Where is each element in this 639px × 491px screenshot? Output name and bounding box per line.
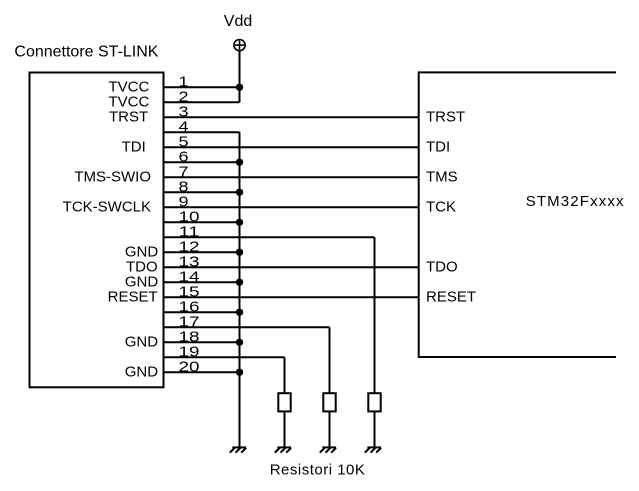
svg-text:TRST: TRST [426, 109, 465, 126]
ground symbol 1 [230, 447, 246, 452]
svg-text:TDI: TDI [426, 139, 450, 156]
junction dot Vdd / pin 1 [236, 84, 243, 91]
svg-text:Vdd: Vdd [224, 13, 252, 30]
wire pin 7 stub [164, 176, 419, 178]
ground symbol 4 [365, 447, 381, 452]
wire pin 1 stub [164, 86, 240, 88]
power symbol Vdd [234, 40, 245, 51]
svg-text:TCK: TCK [426, 199, 456, 216]
wire pin 16 stub [164, 311, 240, 313]
svg-text:TRST: TRST [109, 109, 148, 126]
ground symbol 2 [275, 447, 291, 452]
wire pin 10 stub [164, 221, 240, 223]
wire pin 18 stub [164, 341, 240, 343]
svg-text:TMS-SWIO: TMS-SWIO [74, 169, 151, 186]
wire pin 4 stub [164, 131, 240, 133]
svg-text:TDO: TDO [426, 259, 458, 276]
wire Vdd stem down to pins 1-2 [239, 51, 241, 103]
svg-text:STM32Fxxxx: STM32Fxxxx [526, 193, 625, 210]
svg-text:Connettore ST-LINK: Connettore ST-LINK [14, 43, 158, 60]
resistor R2 10K [323, 393, 335, 411]
wire pin 17 down to R2 [329, 327, 331, 393]
junction dot pin 12 / GND bus [236, 249, 243, 256]
wire pin 17 stub [164, 326, 330, 328]
wire pin 11 down to R3 [374, 237, 376, 393]
resistor R3 10K [368, 393, 380, 411]
wire pin 19 down to R1 [284, 357, 286, 393]
svg-text:TDI: TDI [122, 139, 146, 156]
wire pin 13 stub [164, 266, 419, 268]
svg-text:20: 20 [179, 358, 200, 375]
junction dot pin 16 / GND bus [236, 309, 243, 316]
wire pin 8 stub [164, 191, 240, 193]
wire R3 bottom to ground [374, 411, 376, 447]
svg-text:TCK-SWCLK: TCK-SWCLK [63, 199, 151, 216]
wire R2 bottom to ground [329, 411, 331, 447]
wire R1 bottom to ground [284, 411, 286, 447]
svg-text:Resistori 10K: Resistori 10K [270, 462, 366, 479]
junction dot pin 10 / GND bus [236, 219, 243, 226]
wire pin 11 stub [164, 236, 375, 238]
junction dot pin 20 / GND bus [236, 369, 243, 376]
svg-text:GND: GND [125, 334, 159, 351]
wire pin 6 stub [164, 161, 240, 163]
ground symbol 3 [320, 447, 336, 452]
svg-text:RESET: RESET [426, 289, 476, 306]
junction dot pin 8 / GND bus [236, 189, 243, 196]
wire GND bus vertical (pin 4 down to ground) [239, 132, 241, 447]
junction dot pin 18 / GND bus [236, 339, 243, 346]
resistor R1 10K [278, 393, 290, 411]
wire pin 5 stub [164, 146, 419, 148]
wire pin 14 stub [164, 281, 240, 283]
svg-text:TMS: TMS [426, 169, 458, 186]
wire pin 9 stub [164, 206, 419, 208]
wire pin 20 stub [164, 371, 240, 373]
wire pin 12 stub [164, 251, 240, 253]
svg-text:GND: GND [125, 364, 159, 381]
wire pin 2 stub [164, 101, 240, 103]
wire pin 19 stub [164, 356, 285, 358]
wire pin 15 stub [164, 296, 419, 298]
wire pin 3 stub [164, 116, 419, 118]
svg-text:RESET: RESET [108, 289, 158, 306]
junction dot pin 14 / GND bus [236, 279, 243, 286]
connector J1 (Connettore ST-LINK) box [30, 73, 164, 388]
IC U1 (STM32Fxxxx) box outline [419, 72, 616, 357]
junction dot pin 6 / GND bus [236, 159, 243, 166]
